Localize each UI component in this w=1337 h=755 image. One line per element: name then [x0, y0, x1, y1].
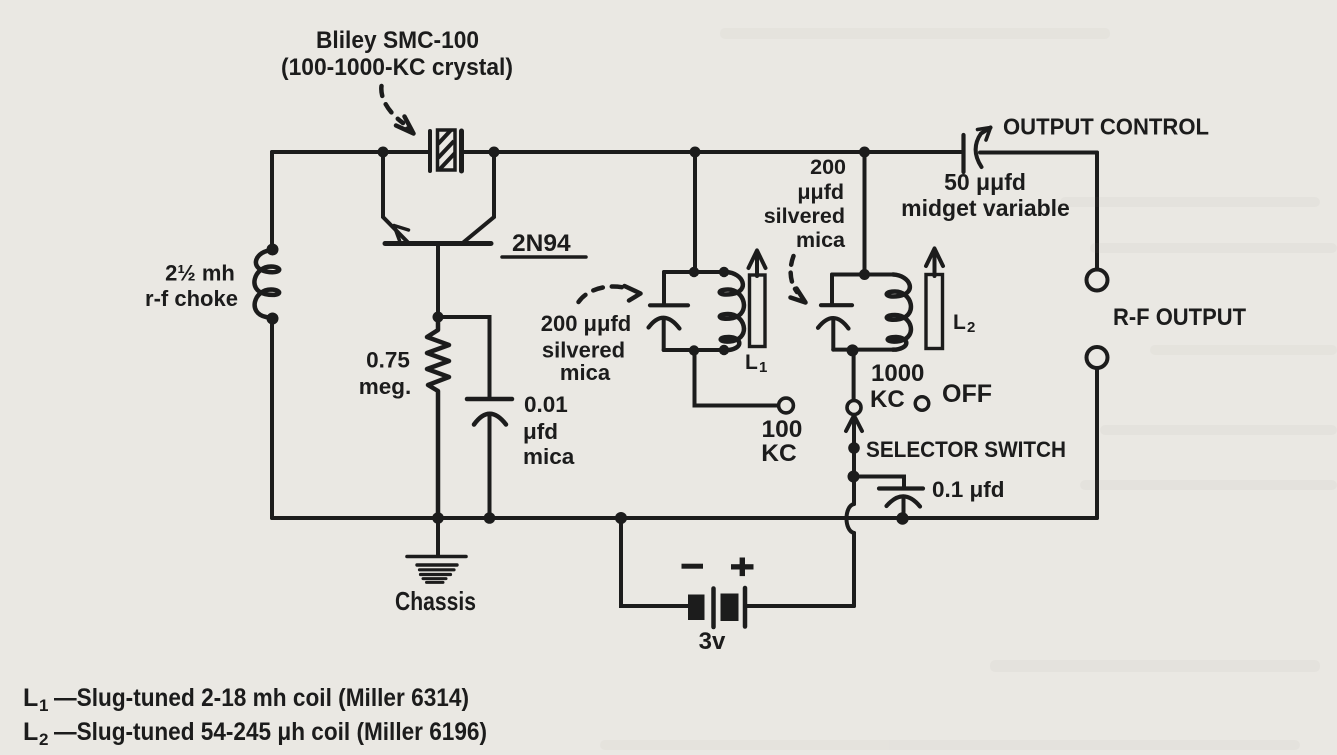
- capacitor C2 lower lead: [488, 414, 492, 518]
- label 1000 KC: [870, 360, 924, 413]
- junction dot C2 ground: [484, 512, 496, 524]
- capacitor C3 curved plate: [649, 318, 680, 329]
- caption L1 coil spec: [23, 684, 469, 715]
- inductor RFC 2.5mh choke coil: [254, 250, 279, 320]
- svg-text:0.1 μfd: 0.1 μfd: [932, 477, 1005, 502]
- svg-text:—Slug-tuned 2-18 mh coil (Mill: —Slug-tuned 2-18 mh coil (Miller 6314): [54, 684, 469, 712]
- junction dot choke top: [267, 244, 279, 256]
- svg-text:mica: mica: [560, 360, 611, 385]
- svg-text:3v: 3v: [699, 628, 726, 655]
- svg-text:L: L: [953, 311, 966, 334]
- tank1 capacitor branch upper lead: [662, 272, 666, 304]
- wire right side below output jack 2: [1095, 368, 1099, 518]
- ground chassis stem: [436, 518, 440, 555]
- ground chassis symbol: [407, 557, 466, 583]
- crystal Y1 hatched body: [438, 130, 456, 170]
- label 2N94: [502, 230, 586, 257]
- inductor L2 coil: [887, 275, 911, 350]
- svg-text:2N94: 2N94: [512, 230, 571, 257]
- capacitor C4 lower lead: [831, 319, 835, 350]
- label 3v: [699, 628, 726, 655]
- wire left side lower: [270, 318, 274, 518]
- wire tank2 to selector jack: [852, 350, 856, 400]
- wire top rail right segment: [980, 151, 1097, 155]
- transistor Q1 emitter lead: [383, 152, 409, 244]
- resistor R1 0.75 meg zigzag: [427, 317, 449, 518]
- svg-text:L: L: [23, 684, 38, 712]
- junction dot tank1 top coil: [719, 267, 729, 277]
- faint page bleed-through smudges: [600, 28, 1337, 750]
- svg-text:1: 1: [39, 696, 48, 715]
- junction dot tank2 top feed: [859, 269, 870, 280]
- capacitor C1 50uufd fixed plate: [961, 135, 965, 172]
- selector switch arm arrow: [846, 416, 862, 505]
- capacitor C5 curved plate: [887, 496, 921, 506]
- label R-F OUTPUT: [1113, 304, 1246, 331]
- junction dot tank1 top feed: [689, 267, 699, 277]
- wire base node to C2: [438, 317, 490, 399]
- svg-text:1000: 1000: [871, 360, 924, 387]
- caption L2 coil spec: [23, 718, 487, 749]
- wire tank1 to 100KC jack: [695, 351, 779, 406]
- junction dot tank1 bottom feed: [689, 345, 699, 355]
- battery B1 plates: [688, 588, 745, 627]
- slug L1 core rectangle: [750, 275, 766, 347]
- wire right side down to output jack 1: [1095, 153, 1099, 270]
- svg-text:midget variable: midget variable: [901, 195, 1070, 221]
- svg-text:1: 1: [759, 359, 767, 376]
- svg-text:Chassis: Chassis: [395, 586, 476, 616]
- svg-text:L: L: [23, 718, 38, 746]
- capacitor C1 rotor curved plate with arrow: [976, 128, 991, 168]
- junction dot selector arm C5 tap: [848, 471, 860, 483]
- label Chassis: [395, 586, 476, 616]
- slug L2 tuning arrow: [926, 249, 943, 277]
- junction dot choke bottom: [267, 313, 279, 325]
- inductor L1 coil: [720, 272, 744, 350]
- capacitor C3 200uufd flat plate: [650, 303, 688, 307]
- svg-text:—Slug-tuned 54-245 μh coil (Mi: —Slug-tuned 54-245 μh coil (Miller 6196): [54, 718, 487, 746]
- svg-text:50 μμfd: 50 μμfd: [944, 169, 1026, 195]
- wire top rail mid segment: [462, 150, 963, 154]
- junction dot R1 ground: [432, 512, 444, 524]
- dashed arrow Bliley label to crystal: [381, 86, 413, 134]
- junction dot tank2 feed rail: [859, 147, 870, 158]
- svg-text:Bliley SMC-100: Bliley SMC-100: [316, 27, 479, 54]
- svg-text:μμfd: μμfd: [797, 180, 844, 204]
- terminal 1000KC jack: [847, 401, 861, 415]
- junction dot tank2 bottom: [847, 344, 859, 356]
- svg-text:KC: KC: [870, 386, 905, 413]
- svg-text:meg.: meg.: [359, 374, 412, 399]
- label 2.5 mh r-f choke: [145, 261, 238, 312]
- wire bottom ground rail: [272, 516, 1097, 520]
- wire battery left leg: [621, 518, 688, 606]
- wire tank1 feed from rail: [693, 152, 697, 272]
- wire top rail left segment: [272, 150, 429, 154]
- label 0.01 ufd mica: [523, 392, 575, 469]
- label OFF: [942, 380, 992, 408]
- transistor Q1 emitter arrow: [394, 226, 409, 241]
- svg-text:0.01: 0.01: [524, 392, 568, 417]
- svg-text:SELECTOR SWITCH: SELECTOR SWITCH: [866, 437, 1066, 462]
- crystal Y1 right plate: [459, 131, 464, 171]
- transistor Q1 collector lead: [462, 152, 494, 244]
- capacitor C5 lower lead: [902, 498, 906, 518]
- capacitor C4 curved plate: [818, 318, 849, 328]
- slug L2 core rectangle: [926, 275, 943, 349]
- wire selector hop over ground rail: [847, 504, 855, 533]
- label 100 KC: [761, 416, 802, 467]
- svg-text:OFF: OFF: [942, 380, 992, 408]
- label L1: [745, 351, 767, 376]
- tank2 top line: [832, 273, 893, 277]
- label 50 uufd midget variable: [901, 169, 1070, 221]
- label 0.75 meg: [359, 348, 412, 400]
- tank1 bottom line: [664, 348, 726, 352]
- capacitor C2 0.01 ufd top plate: [467, 397, 512, 402]
- tank2 capacitor branch upper lead: [830, 275, 834, 304]
- svg-text:KC: KC: [761, 440, 797, 467]
- junction dot crystal left node: [378, 147, 389, 158]
- svg-text:mica: mica: [523, 444, 575, 469]
- svg-text:200 μμfd: 200 μμfd: [541, 311, 632, 336]
- svg-text:2½ mh: 2½ mh: [165, 261, 235, 286]
- svg-text:r-f choke: r-f choke: [145, 286, 238, 311]
- wire tap to C5: [854, 477, 905, 489]
- transistor Q1 base lead: [436, 246, 440, 317]
- wire tank2 feed from rail: [863, 152, 867, 275]
- dashed arrow tank2 label to C4: [791, 256, 806, 303]
- svg-text:(100-1000-KC crystal): (100-1000-KC crystal): [281, 54, 513, 81]
- dashed arrow tank1 label to C3: [579, 286, 641, 302]
- junction dot tank1 feed rail: [690, 147, 701, 158]
- capacitor C5 0.1 ufd flat plate: [879, 486, 923, 490]
- label SELECTOR SWITCH: [866, 437, 1066, 462]
- tank1 top line: [664, 270, 726, 274]
- svg-text:mica: mica: [796, 228, 846, 252]
- junction dot base node: [433, 312, 444, 323]
- svg-text:μfd: μfd: [523, 419, 558, 444]
- junction dot C5 ground: [896, 512, 908, 524]
- label L2: [953, 311, 975, 336]
- terminal OFF jack: [915, 397, 929, 411]
- junction dot battery tap on rail: [615, 512, 627, 524]
- label Bliley SMC-100 crystal: [281, 27, 513, 81]
- junction dot crystal right node: [489, 147, 500, 158]
- tank2 bottom line: [833, 348, 893, 352]
- wire selector arm to battery: [852, 533, 856, 606]
- battery plus sign: [731, 558, 754, 577]
- svg-text:2: 2: [39, 730, 48, 749]
- label 200 uufd silvered mica tank1: [541, 311, 632, 385]
- terminal 100KC jack: [779, 398, 794, 413]
- battery minus sign: [682, 564, 704, 569]
- terminal RF output jack upper: [1087, 270, 1108, 291]
- junction dot tank1 bottom coil: [719, 345, 729, 355]
- svg-text:200: 200: [810, 155, 846, 179]
- terminal RF output jack lower: [1087, 347, 1108, 368]
- capacitor C3 lower lead: [662, 319, 666, 351]
- capacitor C4 200uufd flat plate: [821, 303, 852, 307]
- label 0.1 ufd: [932, 477, 1005, 502]
- svg-text:R-F OUTPUT: R-F OUTPUT: [1113, 304, 1246, 331]
- capacitor C2 curved plate: [474, 414, 506, 425]
- svg-text:0.75: 0.75: [366, 348, 410, 373]
- svg-text:L: L: [745, 351, 758, 374]
- label OUTPUT CONTROL: [1003, 114, 1209, 140]
- wire battery right leg: [747, 604, 854, 608]
- wire left side upper: [270, 152, 274, 250]
- svg-text:silvered: silvered: [764, 204, 845, 228]
- svg-text:2: 2: [967, 319, 975, 336]
- label 200 uufd silvered mica tank2: [764, 155, 846, 252]
- svg-text:100: 100: [762, 416, 803, 443]
- crystal Y1 left plate: [428, 131, 432, 171]
- slug L1 tuning arrow: [749, 251, 766, 277]
- transistor Q1 base bar: [385, 241, 491, 246]
- junction dot selector arm upper: [848, 442, 860, 454]
- svg-text:silvered: silvered: [542, 338, 625, 363]
- svg-text:OUTPUT CONTROL: OUTPUT CONTROL: [1003, 114, 1209, 140]
